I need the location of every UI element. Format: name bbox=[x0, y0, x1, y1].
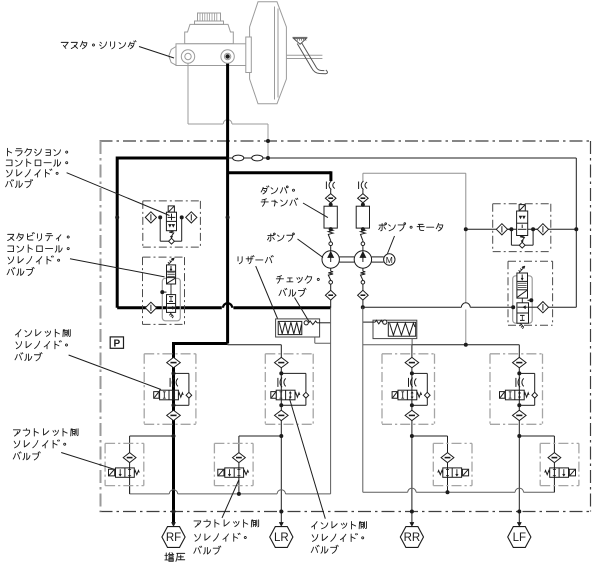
svg-text:P: P bbox=[113, 338, 120, 349]
svg-text:LR: LR bbox=[274, 532, 289, 544]
svg-text:RR: RR bbox=[404, 532, 421, 544]
svg-text:M: M bbox=[386, 255, 393, 265]
svg-text:RF: RF bbox=[166, 532, 181, 544]
svg-text:LF: LF bbox=[513, 532, 526, 544]
